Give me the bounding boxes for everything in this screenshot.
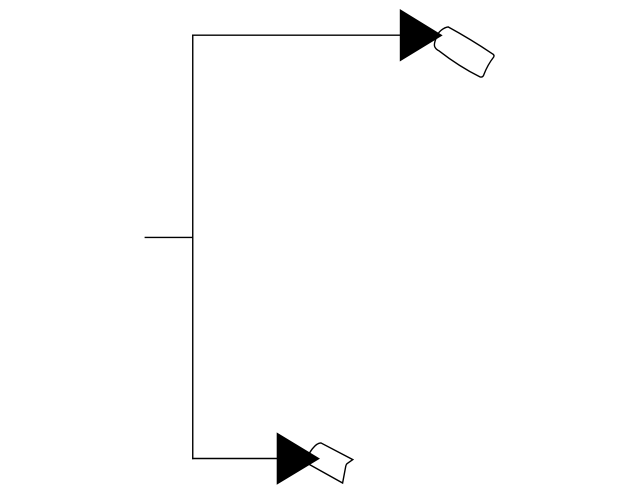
tag label (top) (434, 27, 494, 77)
wire: top branch (192, 34, 400, 36)
flag label (bottom) (306, 443, 353, 483)
wire: vertical trunk (192, 35, 194, 460)
wire: bottom branch (192, 458, 277, 460)
arrowhead (bottom) (277, 433, 319, 484)
arrowhead (top) (400, 10, 441, 61)
wire: left stub (145, 236, 193, 238)
